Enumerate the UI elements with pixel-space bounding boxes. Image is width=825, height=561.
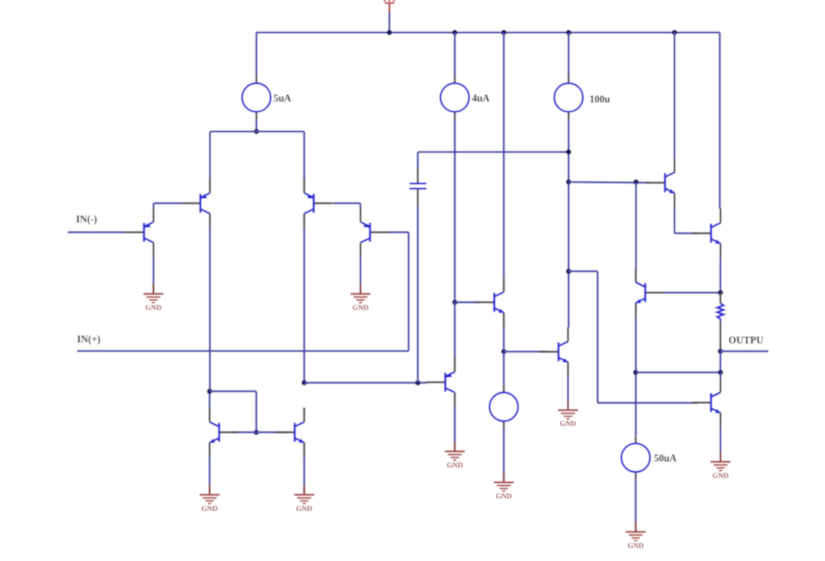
wire tail to Q2L emitter [209, 132, 211, 180]
wire Q9 emitter to ground [567, 376, 569, 400]
wire Q2R base to Q1R emitter [333, 202, 360, 204]
svg-text:GND: GND [712, 471, 728, 480]
junction rail/power [387, 30, 392, 35]
wire Q1 emitter to Q2 base [153, 203, 155, 207]
transistor Q10 (NPN output low side) [692, 378, 721, 428]
capacitor C1 top pin [417, 168, 419, 183]
junction mirror bases [254, 430, 259, 435]
wire Q1R base to IN(+) riser [389, 231, 409, 233]
wire Q10 collector to output node [719, 372, 721, 378]
junction OUTPUT node [718, 349, 723, 354]
transistor Q6 (NPN output high side) [692, 208, 721, 258]
junction mirror diode node [207, 389, 212, 394]
junction Q2R collector / second stage [302, 380, 307, 385]
wire Q2R collector down [303, 228, 305, 383]
transistor Q5 (NPN) [646, 158, 675, 208]
wire I2 down to Q4 base node [454, 120, 456, 303]
wire mirror base rail [232, 431, 288, 433]
wire IN(-) input [68, 231, 125, 233]
ground GND9 (Q8 emitter) [294, 485, 314, 513]
junction output/Q10 collector [718, 370, 723, 375]
svg-text:IN(+): IN(+) [77, 335, 100, 346]
wire I3 down to Q9 collector [568, 120, 570, 328]
current source I2 4uA [441, 76, 491, 120]
resistor R1 top pin [719, 293, 721, 304]
wire down to QA collector [635, 182, 637, 268]
svg-text:GND: GND [560, 419, 576, 428]
current source I1 5uA [242, 76, 292, 120]
svg-text:GND: GND [145, 303, 161, 312]
transistor Q1R (PNP, IN+ input) [361, 208, 390, 258]
svg-text:4uA: 4uA [472, 94, 491, 105]
ground GND6 (50uA) [626, 522, 646, 550]
wire power to rail [388, 12, 390, 33]
wire Q2L collector down [209, 228, 211, 391]
wire Q8 emitter to ground [303, 457, 305, 485]
power symbol VCC (top, clipped) [384, 0, 395, 12]
svg-text:GND: GND [296, 504, 312, 513]
wire cap to second-stage node [417, 205, 419, 383]
junction I2/Q4 base/Q3 emitter [452, 300, 457, 305]
wire rail to I3 [568, 33, 570, 76]
junction 50uA/output pulldown [633, 370, 638, 375]
ground GND2 (Q1R collector) [351, 284, 371, 312]
junction rail/Q5 collector [672, 30, 677, 35]
svg-text:GND: GND [352, 303, 368, 312]
wire output pulldown horizontal [636, 371, 721, 373]
transistor Q7 (mirror, diode-connected) [209, 408, 238, 458]
junction tail node [254, 129, 259, 134]
wire diode connection [210, 390, 257, 392]
wire Q2L collector to mirror node [209, 391, 211, 409]
wire Q7 emitter to ground [209, 457, 211, 485]
svg-text:IN(-): IN(-) [76, 215, 97, 226]
wire node to Q5 base [569, 181, 650, 184]
wire down to Q3 emitter [454, 302, 456, 358]
resistor R1 [717, 303, 723, 321]
capacitor C1 [409, 183, 426, 190]
wire QA emitter down to 50uA [635, 317, 637, 436]
wire cap branch top corner [417, 152, 419, 168]
wire Q10 base path [569, 270, 598, 272]
junction 100u/cap branch [566, 149, 571, 154]
wire OUTPUT [720, 350, 768, 352]
svg-text:5uA: 5uA [274, 94, 293, 105]
transistor Q1 (PNP, IN- input) [125, 208, 154, 258]
wire Q9 base [504, 351, 546, 353]
wire Q10 emitter to ground [720, 427, 722, 452]
svg-text:GND: GND [447, 460, 463, 469]
wire rail to I1 [255, 33, 257, 76]
wire cap branch to 100u node [418, 151, 569, 153]
wire Q1 collector to ground [153, 257, 155, 284]
junction Q6 emitter/QA base/R1 [718, 290, 723, 295]
transistor Q4 (NPN) [475, 278, 504, 328]
svg-text:OUTPU: OUTPU [729, 336, 764, 347]
junction rail/I3 [566, 30, 571, 35]
ground GND7 (Q10 emitter) [711, 452, 731, 480]
svg-text:GND: GND [496, 491, 512, 500]
svg-text:GND: GND [628, 541, 644, 550]
junction Q4 emitter/Q9 base/I0 [501, 349, 506, 354]
transistor Q2R (PNP right of diff pair) [304, 179, 333, 229]
wire I1 to tail node [255, 120, 257, 132]
junction QA collector tap [633, 179, 638, 184]
wire to current source I0 [503, 352, 505, 385]
wire QA base to output column [664, 292, 720, 294]
ground GND5 (Q9 emitter) [558, 401, 578, 429]
junction 100u/Q10 base wire [566, 269, 571, 274]
junction rail/Q4 collector [501, 30, 506, 35]
resistor R1 bottom pin [719, 321, 721, 351]
wire rail to I2 [454, 33, 456, 76]
ground GND8 (Q7 emitter) [200, 485, 220, 513]
wire Q5 collector to rail [674, 33, 676, 159]
wire Q3 collector to ground [454, 407, 456, 442]
wire Q4 emitter down [503, 327, 505, 352]
wire Q6 emitter to output resistor node [719, 258, 721, 293]
svg-text:100u: 100u [590, 95, 611, 106]
ground GND4 (I0) [494, 473, 514, 501]
transistor Q2 (PNP left of diff pair) [181, 179, 210, 229]
wire VCC rail [256, 32, 720, 34]
wire Q4 collector to rail [503, 33, 505, 278]
junction rail/I2 [452, 30, 457, 35]
wire 50uA to ground [635, 480, 637, 523]
wire output node down [719, 351, 721, 372]
capacitor C1 bottom pin [417, 190, 419, 205]
transistor Q3 (PNP second stage) [426, 357, 455, 407]
svg-text:GND: GND [201, 504, 217, 513]
ground GND3 (Q3 collector) [445, 442, 465, 470]
wire I0 to ground [503, 429, 505, 473]
current source I3 100u [554, 76, 610, 120]
wire tail horizontal [210, 131, 304, 133]
svg-text:50uA: 50uA [654, 454, 678, 465]
current source I4 50uA [621, 436, 677, 480]
transistor Q9 (NPN) [540, 327, 569, 377]
transistor Q8 (mirror output) [276, 408, 305, 458]
wire Q5 emitter to Q6 base [674, 207, 676, 233]
current source I0 (unlabeled) [490, 385, 519, 429]
wire second-stage node horizontal [304, 382, 427, 384]
wire Q1R collector to ground [360, 257, 362, 284]
ground GND1 (Q1 collector) [143, 284, 163, 312]
wire IN(+) input [77, 350, 409, 352]
junction 100u/Q5 base wire [566, 179, 571, 184]
wire rail right end down to Q6 collector [719, 33, 721, 209]
wire Q4 base [455, 301, 480, 303]
junction compensation cap tap [415, 380, 420, 385]
transistor QA (NPN, mirrored) [635, 268, 664, 318]
wire tail to Q2R emitter [303, 132, 305, 180]
